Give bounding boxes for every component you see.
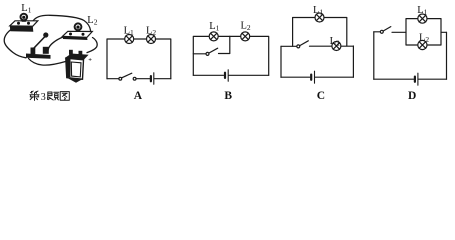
svg-text:+: + [88, 56, 92, 63]
svg-text:L1: L1 [124, 25, 134, 37]
svg-text:L1: L1 [313, 5, 323, 17]
svg-text:L1: L1 [21, 3, 31, 15]
svg-text:L1: L1 [209, 21, 219, 33]
svg-text:L2: L2 [330, 36, 340, 48]
svg-text:L2: L2 [87, 15, 97, 27]
svg-text:L2: L2 [146, 25, 156, 37]
svg-text:3: 3 [41, 92, 46, 103]
svg-text:B: B [224, 90, 232, 102]
svg-text:A: A [134, 90, 143, 102]
svg-text:L2: L2 [419, 33, 429, 45]
svg-text:D: D [408, 90, 416, 102]
svg-text:C: C [317, 90, 325, 102]
svg-text:L2: L2 [241, 20, 251, 32]
svg-text:L1: L1 [417, 5, 427, 17]
